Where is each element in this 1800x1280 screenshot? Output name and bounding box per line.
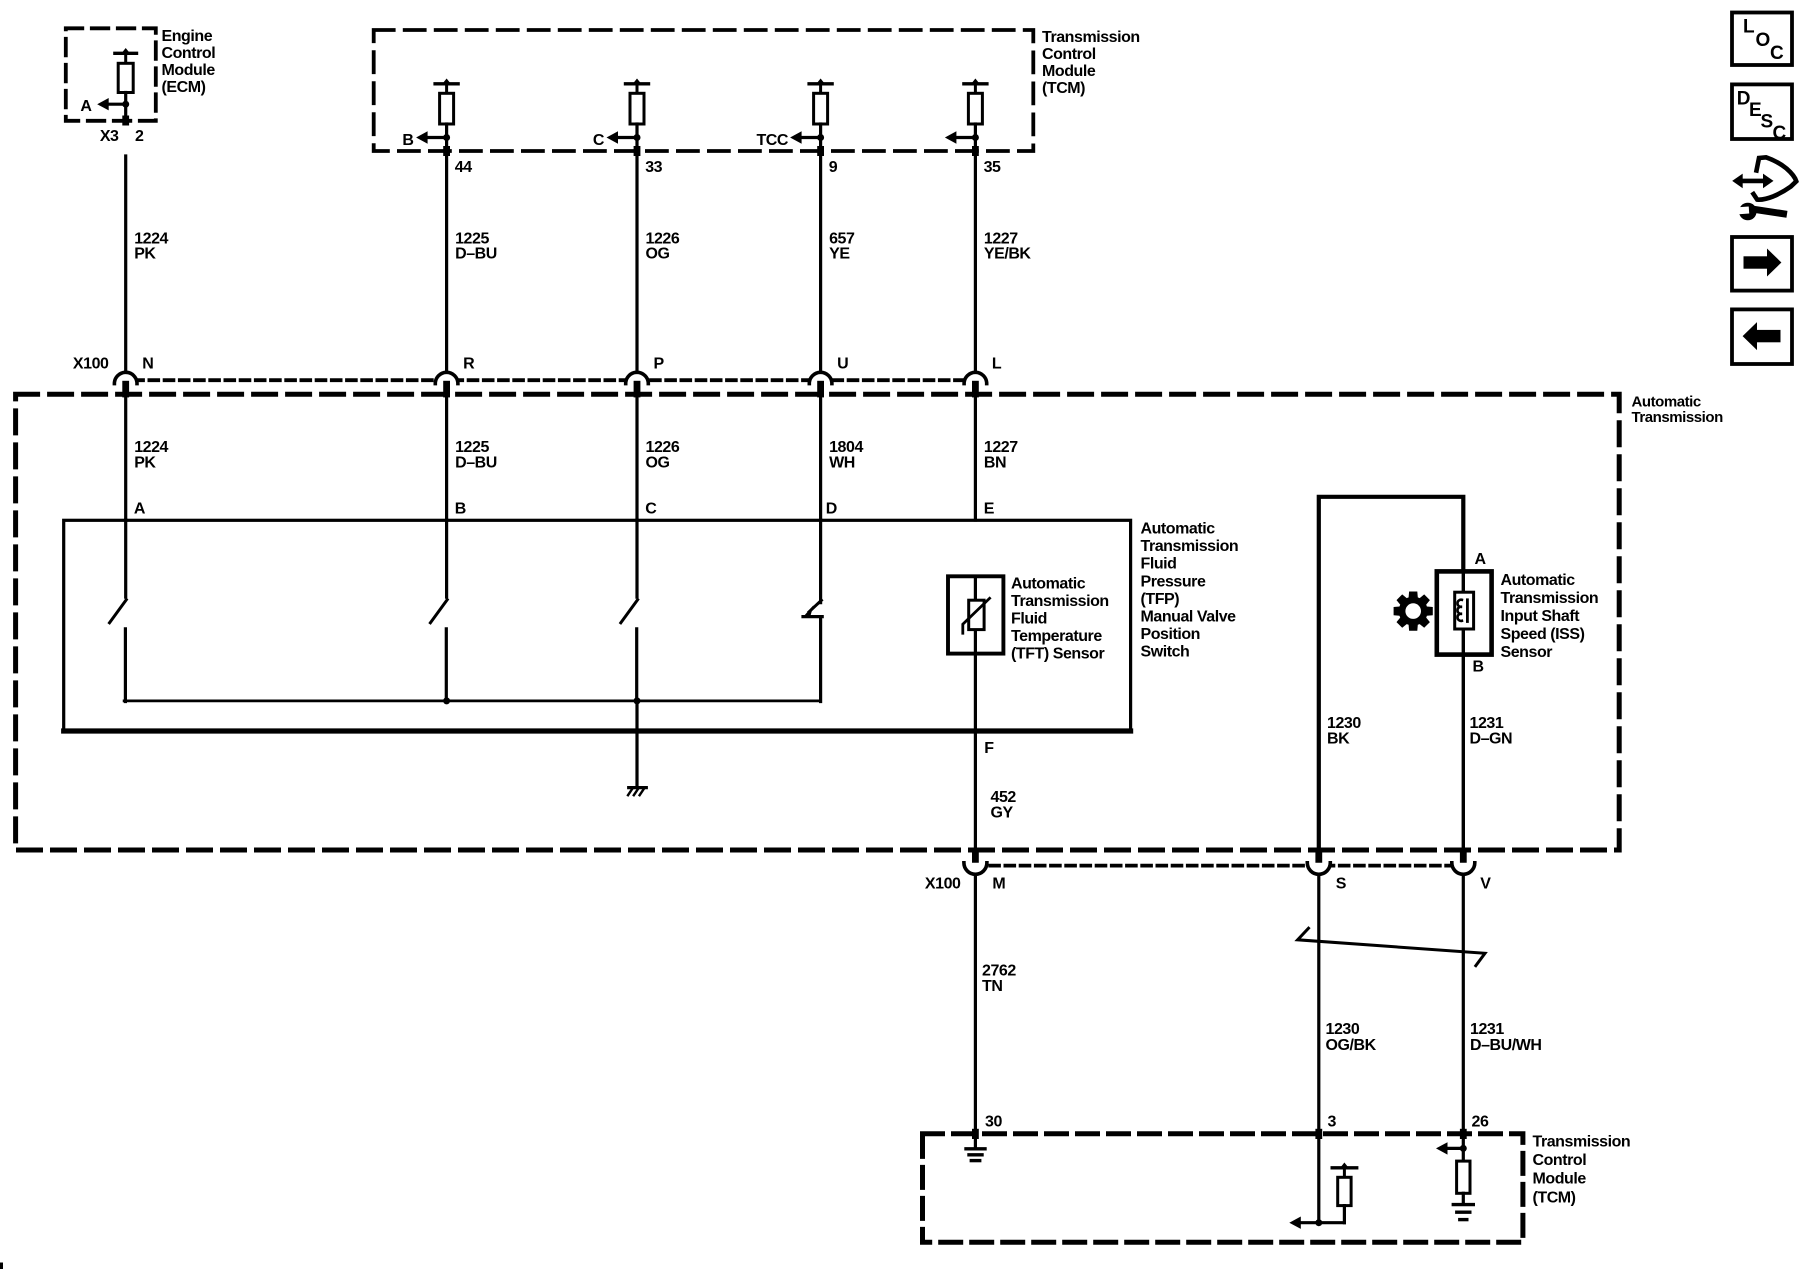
svg-text:D: D: [826, 501, 837, 518]
wire: circuit 1804 WH from X100 to TFP switch pin D: [819, 397, 822, 520]
arrow: ECM signal A: [106, 103, 126, 106]
svg-text:B: B: [455, 501, 466, 518]
svg-text:P: P: [654, 356, 665, 373]
resistor: TCM driver for pin 35: [970, 79, 980, 86]
svg-text:2762TN: 2762TN: [982, 963, 1016, 995]
icon: next arrow button: [1732, 237, 1792, 291]
svg-text:TCC: TCC: [756, 132, 788, 149]
icon: DESC button: [1732, 84, 1792, 139]
svg-text:C: C: [645, 501, 657, 518]
thermistor: TFT sensing element: [969, 600, 984, 629]
node: X100 terminal N connector: [114, 372, 137, 383]
wire: ISS sensor loop (top): [1319, 497, 1464, 851]
wire: TCM resistor to pin 9: [819, 124, 822, 151]
svg-text:V: V: [1480, 876, 1491, 893]
node: X100 inline connector dotted line (top): [119, 378, 976, 382]
ground: TCM internal ground at pin 26: [1453, 1203, 1473, 1206]
svg-text:L: L: [992, 356, 1002, 373]
svg-text:1227BN: 1227BN: [984, 439, 1018, 471]
node: junction at C on common line: [634, 697, 641, 704]
svg-text:X3: X3: [100, 128, 119, 145]
wire: circuit 657 YE from module to X100: [819, 156, 822, 371]
svg-text:452GY: 452GY: [991, 789, 1017, 821]
svg-text:X100: X100: [73, 356, 109, 373]
wire: circuit 1224 PK from X100 to TFP switch pin A: [124, 397, 127, 520]
gear: speed sensor gear icon: [1394, 592, 1433, 631]
wire: twisted pair indicator across S and V wires: [1298, 928, 1485, 966]
wire: C junction down to case ground: [635, 701, 638, 787]
svg-text:1230OG/BK: 1230OG/BK: [1326, 1021, 1377, 1054]
svg-text:1230BK: 1230BK: [1327, 715, 1361, 747]
svg-text:AutomaticTransmission: AutomaticTransmission: [1632, 394, 1724, 427]
ground: TCM internal ground at pin 30: [966, 1147, 985, 1150]
svg-text:1225D–BU: 1225D–BU: [455, 231, 497, 263]
arrow: TCM internal signal C: [616, 136, 638, 139]
arrow: TCM pin 26 internal signal: [1445, 1147, 1463, 1150]
svg-text:1224PK: 1224PK: [134, 439, 168, 471]
module box: Engine Control Module (ECM) dashed outline: [66, 28, 156, 121]
node: X100 inline connector dotted line (bottom): [975, 864, 1474, 868]
svg-text:TransmissionControlModule(TCM): TransmissionControlModule(TCM): [1042, 29, 1140, 97]
wire: circuit 1224 PK from module to X100: [124, 156, 127, 371]
pin: TCM pin 33: [634, 146, 641, 156]
svg-text:N: N: [142, 356, 153, 373]
svg-text:26: 26: [1472, 1114, 1489, 1131]
wire: circuit 1231 D-BU/WH from X100 V to TCM pin 26: [1462, 877, 1465, 1161]
svg-text:A: A: [80, 98, 92, 115]
svg-text:1231D–BU/WH: 1231D–BU/WH: [1470, 1021, 1542, 1054]
svg-text:S: S: [1336, 876, 1347, 893]
svg-text:U: U: [837, 356, 848, 373]
resistor: ECM internal driver resistor: [121, 48, 131, 55]
pin: TCM pin 44: [443, 146, 450, 156]
pin: TCM pin 9: [817, 146, 824, 156]
module box: Automatic Transmission dashed outline: [16, 394, 1620, 850]
svg-text:R: R: [463, 356, 475, 373]
svg-text:B: B: [1473, 659, 1484, 676]
wire: circuit 1227 YE/BK from module to X100: [974, 156, 977, 371]
node: X100 terminal P connector: [626, 372, 649, 383]
wire: circuit 1230 OG/BK from X100 S to TCM pin 3: [1317, 877, 1320, 1222]
svg-text:L: L: [1743, 17, 1755, 38]
node: X100 terminal R connector: [435, 372, 458, 383]
wire: circuit 452 from TFT sensor to X100 M: [974, 654, 977, 852]
svg-text:9: 9: [829, 159, 838, 176]
wire: circuit 2762 TN from X100 M to TCM pin 30: [974, 877, 977, 1147]
wire: switch common thin line A to D: [124, 700, 821, 703]
svg-text:E: E: [1749, 100, 1761, 121]
svg-text:X100: X100: [925, 876, 961, 893]
switch: TFP contact D (wiper arrow): [819, 520, 822, 603]
module box: Transmission Control Module (TCM) bottom dashed outline: [923, 1134, 1523, 1242]
node: junction at B on common line: [443, 697, 450, 704]
switch: TFP contact A: [124, 520, 127, 597]
arrow: TCM pin 3 internal signal with pull-up resistor: [1319, 1221, 1345, 1224]
resistor: TCM driver for pin 33: [632, 79, 642, 86]
wire: circuit 1225 D–BU from X100 to TFP switch pin B: [445, 397, 448, 520]
svg-text:C: C: [1773, 123, 1787, 144]
svg-text:M: M: [992, 876, 1005, 893]
svg-text:E: E: [984, 501, 995, 518]
node: X100 terminal S connector: [1315, 851, 1322, 865]
svg-text:2: 2: [135, 128, 144, 145]
svg-text:1226OG: 1226OG: [646, 439, 680, 471]
resistor: TCM terminating resistor at pin 26: [1457, 1161, 1470, 1193]
svg-text:1225D–BU: 1225D–BU: [455, 439, 497, 471]
pin: TCM pin 30: [972, 1129, 979, 1139]
pin: TCM pin 26: [1460, 1129, 1467, 1139]
svg-text:C: C: [1770, 43, 1784, 64]
svg-text:30: 30: [985, 1114, 1002, 1131]
wire: E wire through TFT sensor: [974, 576, 977, 600]
component box: ISS sensor outline: [1437, 571, 1492, 654]
icon: LOC button: [1732, 13, 1792, 66]
svg-text:AutomaticTransmissionInput Sha: AutomaticTransmissionInput ShaftSpeed (I…: [1501, 572, 1599, 661]
svg-text:A: A: [1475, 551, 1487, 568]
svg-text:1226OG: 1226OG: [646, 231, 680, 263]
svg-text:1227YE/BK: 1227YE/BK: [984, 231, 1032, 263]
icon: previous arrow button: [1732, 309, 1792, 364]
svg-text:33: 33: [645, 159, 662, 176]
svg-text:B: B: [402, 132, 413, 149]
wire: circuit 1226 OG from module to X100: [635, 156, 638, 371]
icon: wiring repair (arrows and wrench): [1728, 157, 1797, 220]
svg-text:657YE: 657YE: [829, 231, 855, 263]
svg-text:O: O: [1756, 30, 1770, 51]
arrow: TCM internal signal TCC: [799, 136, 821, 139]
svg-text:35: 35: [984, 159, 1001, 176]
ground: transmission case ground (chassis): [629, 786, 647, 789]
stray mark: page edge artifact: [0, 1263, 3, 1270]
svg-text:TransmissionControlModule(TCM): TransmissionControlModule(TCM): [1533, 1134, 1631, 1207]
wire: circuit 1231 D-GN ISS to X100 V: [1462, 655, 1465, 852]
wire: resistor to pin A junction: [124, 93, 127, 121]
switch: TFP contact C: [635, 520, 638, 597]
resistor: TCM driver for pin 44: [441, 79, 451, 86]
wire: circuit 1226 OG from X100 to TFP switch pin C: [635, 397, 638, 520]
wire: wire through ISS sensor to coil: [1462, 571, 1465, 592]
module box: Transmission Control Module (TCM) dashed outline: [374, 30, 1034, 151]
pin: TCM pin 35: [972, 146, 979, 156]
svg-text:A: A: [134, 501, 146, 518]
node: X100 terminal L connector: [964, 372, 987, 383]
svg-text:C: C: [593, 132, 605, 149]
coil: ISS pickup coil element: [1455, 592, 1474, 629]
arrow: TCM internal signal (unlabeled): [954, 136, 976, 139]
wire: TCM resistor to pin 44: [445, 124, 448, 151]
wire: circuit 1227 BN from X100 to TFP switch pin E: [974, 397, 977, 520]
svg-text:AutomaticTransmissionFluidPres: AutomaticTransmissionFluidPressure(TFP)M…: [1141, 521, 1239, 661]
wire: TFP switch common bus (thick bottom): [64, 728, 1131, 733]
svg-text:1224PK: 1224PK: [134, 231, 168, 263]
resistor: TCM pull-up at pin 3: [1339, 1163, 1349, 1170]
svg-text:1231D–GN: 1231D–GN: [1470, 715, 1513, 747]
component box: TFP Manual Valve Position Switch: [64, 520, 1131, 731]
switch: TFP contact B: [445, 520, 448, 597]
node: X100 terminal V connector: [1460, 851, 1467, 865]
svg-text:AutomaticTransmissionFluidTemp: AutomaticTransmissionFluidTemperature(TF…: [1011, 576, 1109, 663]
node: X100 terminal U connector: [809, 372, 832, 383]
svg-text:S: S: [1761, 112, 1773, 133]
arrow: TCM internal signal B: [425, 136, 447, 139]
svg-text:3: 3: [1328, 1114, 1337, 1131]
pin: TCM pin 3: [1315, 1129, 1322, 1139]
wire: circuit 1225 D–BU from module to X100: [445, 156, 448, 371]
component box: TFT sensor outline: [948, 576, 1003, 653]
resistor: TCM driver for pin 9: [815, 79, 825, 86]
svg-text:44: 44: [455, 159, 472, 176]
svg-text:F: F: [984, 740, 994, 757]
wire: TCM resistor to pin 35: [974, 124, 977, 151]
node: X100 terminal M connector: [972, 851, 979, 865]
svg-text:1804WH: 1804WH: [829, 439, 863, 471]
wire: TCM resistor to pin 33: [635, 124, 638, 151]
pin: ECM connector pin X3-2: [122, 116, 129, 126]
svg-text:EngineControlModule(ECM): EngineControlModule(ECM): [162, 28, 216, 96]
